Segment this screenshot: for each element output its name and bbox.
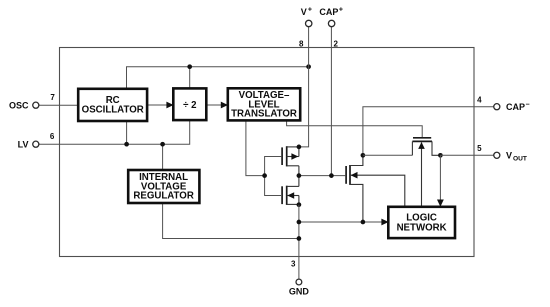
M3 drain stub to CAP- node [350,155,363,165]
svg-text:V: V [301,7,307,17]
svg-text:5: 5 [477,144,482,153]
node: junction feedback rail / divider branch [187,64,192,69]
svg-text:OUT: OUT [513,155,527,162]
node: junction CAP+ line / midpoint net [329,173,334,178]
arrowhead into logic network top [437,200,444,207]
wire: feedback rail branch to divider top [189,67,191,89]
M2 channel bar [286,186,288,205]
wire: divider output to voltage level translator [206,104,223,106]
wire: translator output to M4 gate [287,120,423,137]
M2 body line [287,195,299,197]
node: junction LV net / regulator [160,142,165,147]
svg-text:6: 6 [50,132,55,141]
node: M3 source / ground wire junction [361,220,366,225]
wire: LV net to internal voltage regulator top [162,144,164,170]
node: switch midpoint junction [297,173,302,178]
wire: switch midpoint to M3 gate [299,175,345,177]
svg-text:LV: LV [18,139,29,149]
arrowhead into logic network [381,219,388,226]
svg-text:+: + [339,7,343,14]
wire: VOUT node to logic network [439,155,441,202]
svg-text:8: 8 [299,39,304,48]
M3 body arrow pointing left [351,172,358,179]
M4 body line from logic network [421,143,423,207]
wire: OSC pin to RC oscillator [39,104,78,106]
transistor M3 (N-channel switch CAP- to GND) [346,155,405,222]
node: M3 drain / CAP- junction [361,153,366,158]
svg-text:GND: GND [289,287,310,297]
M3 gate bar [345,166,347,184]
wire: translator output to M1/M2 gate chain [246,120,265,175]
M3 body line to logic network [350,175,405,207]
M1 channel bar [286,146,288,166]
terminal: LV pin 6 [33,141,39,147]
wire: ground line down to GND pin [298,205,300,280]
svg-text:3: 3 [291,259,296,268]
terminal: CAP+ pin 2 [328,20,334,26]
svg-text:2: 2 [334,39,339,48]
block: voltage level translator [228,88,300,120]
M2 drain stub [287,185,299,187]
svg-text:−: − [526,101,530,108]
M4 gate bar [413,137,431,139]
node: junction feedback rail / V+ line [306,64,311,69]
svg-text:OSC: OSC [9,100,29,110]
M2 gate bar [281,186,283,204]
M2 source stub [287,203,299,205]
chip outline box [60,48,475,257]
block: RC oscillator [78,89,147,121]
wire: CAP+ pin line down to switch midpoint net [330,27,332,176]
M1 body line [287,156,299,158]
terminal: GND pin 3 [296,279,302,285]
M3 source stub to ground net [350,184,363,222]
wire: RC oscillator output to divider input [147,104,169,106]
node: gate chain junction [262,173,267,178]
svg-text:4: 4 [477,95,482,104]
wire: ground net to logic network [299,221,384,223]
terminal: V+ pin 8 [306,20,312,26]
wire: M1 source to M2 drain with CAP+ tap [298,166,300,187]
M2 body arrow pointing left [287,192,294,199]
terminal: OSC pin 7 [33,102,39,108]
svg-text:V: V [506,150,512,160]
M4 left stub [411,141,413,155]
M1 gate bar [281,147,283,165]
M4 body arrow pointing up [418,142,425,149]
arrowhead into translator [221,102,228,109]
transistor M1 (P-channel switch V+ to CAP+) [282,146,299,166]
node: M2 source / ground line junction [297,202,302,207]
wire: LV pin to divider bottom [39,120,190,144]
terminal: CAP- pin 4 [494,104,500,110]
svg-text:TRANSLATOR: TRANSLATOR [231,109,297,120]
svg-text:CAP: CAP [506,102,525,112]
M4 channel bar [412,140,432,142]
wire: regulator output to ground line [163,203,299,239]
svg-text:CAP: CAP [319,7,338,17]
svg-text:NETWORK: NETWORK [397,223,447,234]
node: ground line / logic wire junction [297,220,302,225]
M3 channel bar [349,165,351,185]
wire: VOUT node to VOUT pin [440,154,494,156]
M1 drain stub to V+ node [287,146,299,148]
wire: RC oscillator bottom to LV net [126,121,128,144]
transistor M2 (N-channel switch CAP+ to GND) [282,186,299,205]
block: divide by two [173,88,206,120]
M4 right stub to VOUT node [432,141,440,155]
M1 source stub [287,165,299,167]
terminal: VOUT pin 5 [494,152,500,158]
wire: CAP- pin line [363,107,494,156]
wire: CAP- node to M4 left terminal [363,154,413,156]
block: internal voltage regulator [128,170,199,203]
wire: gate chain branch down to M2 gate [265,176,281,196]
wire: V+ feedback rail to oscillator and divider [127,67,309,89]
M1 body arrow pointing right [291,153,298,160]
block: logic network [388,207,455,238]
svg-text:+: + [308,7,312,14]
svg-text:OSCILLATOR: OSCILLATOR [82,105,144,116]
transistor M4 (N-channel switch CAP- to VOUT) [412,138,440,207]
wire: gate chain branch up to M1 gate [265,157,282,176]
svg-text:REGULATOR: REGULATOR [133,191,193,202]
wire: V+ pin line down to P-switch drain [299,27,309,147]
node: VOUT junction [438,153,443,158]
M2 body tie to source [298,196,300,205]
node: ground line / regulator wire junction [297,236,302,241]
arrowhead into divider [166,102,173,109]
svg-text:7: 7 [50,93,55,102]
M1 body tie to drain [298,147,300,157]
svg-text:÷ 2: ÷ 2 [183,100,196,111]
node: junction RC bottom / LV net [124,142,129,147]
node: M1 drain / V+ junction [297,145,302,150]
